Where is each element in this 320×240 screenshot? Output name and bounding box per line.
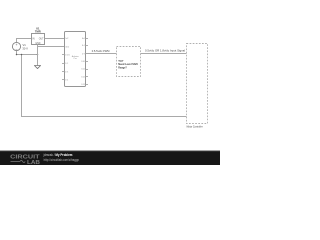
svg-text:+: + — [16, 43, 18, 47]
wire level-shift box to motor controller — [141, 53, 187, 55]
svg-text:IN: IN — [32, 38, 35, 40]
wire bottom bus to motor controller — [22, 55, 187, 117]
svg-text:D 4: D 4 — [65, 79, 68, 81]
svg-text:V1: V1 — [23, 43, 27, 47]
svg-text:D10: D10 — [81, 61, 84, 63]
wire U1 OUT to IC pin1 — [45, 38, 65, 40]
svg-text:GND: GND — [35, 43, 40, 45]
svg-text:Motor Controller: Motor Controller — [187, 125, 203, 129]
svg-text:D 2: D 2 — [65, 63, 68, 65]
svg-text:D 0/1: D 0/1 — [65, 54, 70, 56]
wire U1 GND down to ground — [37, 45, 39, 66]
IC pin labels right — [81, 37, 84, 86]
svg-text:0.5v/dc OR 1.8v/dc Input Signa: 0.5v/dc OR 1.8v/dc Input Signal — [145, 49, 185, 53]
svg-text:D11: D11 — [81, 69, 84, 71]
label V1 value — [22, 43, 28, 51]
svg-text:D12: D12 — [81, 76, 84, 78]
annotation box motor controller — [187, 44, 208, 129]
voltage source V1 — [12, 42, 20, 51]
wire gnd net to IC pin2 — [38, 46, 65, 48]
svg-text:A 1: A 1 — [82, 44, 85, 47]
svg-text:Range?: Range? — [118, 65, 127, 69]
svg-text:OUT: OUT — [39, 38, 44, 40]
svg-text:LAB: LAB — [27, 160, 40, 165]
svg-text:D13: D13 — [81, 84, 84, 86]
footer bar — [0, 151, 220, 166]
microcontroller U2 — [65, 32, 86, 87]
svg-text:TMR: TMR — [35, 30, 41, 34]
svg-text:D 9: D 9 — [82, 54, 85, 56]
svg-text:0.5-5v/dc PWM: 0.5-5v/dc PWM — [92, 49, 110, 53]
wire PWM out to level-shift box — [86, 53, 117, 55]
node junction dot B — [37, 54, 39, 56]
svg-text:jdmcsk / My Problem: jdmcsk / My Problem — [43, 153, 73, 157]
svg-text:http://circuitlab.com/c/fragpp: http://circuitlab.com/c/fragpp — [44, 158, 80, 162]
node junction dot V1 bottom — [16, 54, 18, 56]
ground — [34, 66, 40, 69]
svg-text:30 V: 30 V — [22, 46, 28, 50]
annotation box level shift — [117, 47, 141, 77]
svg-text:D 3: D 3 — [65, 71, 68, 73]
wire V1 bottom to ground node — [17, 51, 38, 55]
wire V1 top to U1 IN — [17, 39, 32, 43]
IC pin labels left — [65, 38, 70, 81]
svg-text:A 0: A 0 — [82, 37, 85, 40]
IC left pin stubs — [62, 55, 65, 80]
svg-text:GnD: GnD — [65, 46, 70, 48]
IC right pin stubs — [86, 39, 89, 85]
timer U1 — [32, 27, 45, 45]
node junction dot A — [21, 54, 23, 56]
